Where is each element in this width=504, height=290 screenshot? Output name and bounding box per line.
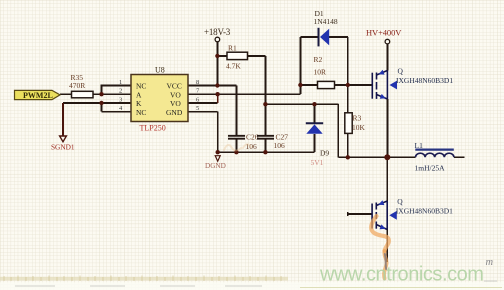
junction C27 DGND bbox=[263, 150, 267, 154]
wire R1 drop to C27 bbox=[264, 56, 266, 135]
wire DGND rail bbox=[218, 151, 315, 153]
wire HV drop to Q1 collector bbox=[386, 44, 388, 71]
svg-text:5: 5 bbox=[196, 105, 199, 112]
svg-text:D9: D9 bbox=[320, 149, 329, 158]
svg-text:VO: VO bbox=[170, 90, 181, 99]
svg-text:1mH/25A: 1mH/25A bbox=[415, 164, 446, 173]
svg-text:Q: Q bbox=[397, 197, 403, 206]
ground DGND bbox=[205, 156, 226, 170]
svg-text:4.7K: 4.7K bbox=[226, 62, 241, 71]
svg-text:PWM2L: PWM2L bbox=[23, 91, 53, 100]
svg-text:470R: 470R bbox=[69, 81, 85, 90]
capacitor C27 bbox=[257, 133, 288, 151]
junction +18V R1 bbox=[215, 54, 219, 58]
wire R2 right to gate bbox=[335, 84, 372, 86]
svg-text:NC: NC bbox=[136, 108, 146, 117]
wire pin 7 net VO bbox=[188, 93, 300, 95]
wire Q1 emitter drop bbox=[386, 99, 388, 157]
svg-text:K: K bbox=[136, 99, 142, 108]
junction D9 node bbox=[312, 102, 316, 106]
inductor L1 bbox=[415, 141, 454, 173]
junction R3 rail bbox=[346, 155, 350, 159]
resistor R3 bbox=[345, 113, 366, 134]
wire pin7 riser to R2 bbox=[299, 85, 301, 94]
svg-text:IXGH48N60B3D1: IXGH48N60B3D1 bbox=[396, 76, 453, 85]
wire D1 left vertical bbox=[299, 37, 301, 85]
junction VO pins bbox=[215, 92, 219, 96]
svg-text:10R: 10R bbox=[314, 68, 327, 77]
wire +18V drop bbox=[216, 42, 218, 86]
wire VCC drop to C26 bbox=[235, 86, 237, 136]
wire pin 2 stub bbox=[102, 93, 132, 95]
wire C26 bottom lead bbox=[235, 139, 237, 153]
junction R2 left D1 bbox=[298, 83, 302, 87]
wire +18V to R1 bbox=[217, 55, 227, 57]
svg-text:VCC: VCC bbox=[167, 82, 182, 91]
svg-text:10K: 10K bbox=[352, 123, 366, 132]
wire R3 top lead bbox=[347, 85, 349, 113]
wire PWM2L to R35 bbox=[60, 93, 72, 95]
svg-text:VO: VO bbox=[170, 99, 181, 108]
junction R2 right D1 R3 bbox=[346, 83, 350, 87]
svg-text:+18V-3: +18V-3 bbox=[204, 27, 231, 37]
wire GND drop bbox=[217, 112, 219, 153]
wire drop to lower rail bbox=[337, 104, 339, 157]
wire pin 5 GND stub bbox=[188, 111, 218, 113]
wire mid rail bbox=[338, 156, 415, 158]
wire D9 top lead bbox=[314, 104, 316, 123]
resistor R35 bbox=[69, 73, 93, 98]
wire pin1-pin2 riser bbox=[101, 85, 103, 95]
wire Q2 gate bbox=[348, 213, 372, 215]
svg-text:R2: R2 bbox=[314, 55, 323, 64]
wire R3 bottom lead bbox=[347, 133, 349, 157]
svg-text:1: 1 bbox=[119, 79, 122, 86]
svg-text:TLP250: TLP250 bbox=[140, 124, 166, 133]
wire R2 left bbox=[300, 84, 317, 86]
junction pin3-pin4 bbox=[99, 101, 103, 105]
wire pin 6 stub bbox=[188, 102, 218, 104]
wire SGND drop bbox=[62, 103, 64, 136]
diode D1 1N4148 bbox=[314, 9, 338, 46]
wire R1 right bbox=[248, 55, 266, 57]
svg-text:DGND: DGND bbox=[205, 162, 226, 170]
resistor R2 bbox=[314, 55, 335, 89]
pin numbers bbox=[119, 79, 200, 112]
junction R1 node bbox=[263, 102, 267, 106]
wire R35 to pin2 junction bbox=[93, 93, 102, 95]
svg-text:m: m bbox=[486, 257, 494, 268]
port PWM2L bbox=[15, 90, 61, 99]
orange scribble annotation bbox=[371, 216, 389, 279]
svg-text:U8: U8 bbox=[155, 66, 165, 75]
wire pin 3 net to SGND bbox=[63, 102, 131, 104]
power +18V-3 bbox=[204, 27, 231, 42]
wire C27 bottom lead bbox=[264, 139, 266, 153]
svg-text:A: A bbox=[136, 90, 142, 99]
wire D1 top right bbox=[329, 36, 348, 38]
svg-text:Q: Q bbox=[398, 67, 404, 76]
svg-text:8: 8 bbox=[196, 79, 199, 86]
wire D1 right vertical bbox=[347, 37, 349, 85]
svg-text:106: 106 bbox=[274, 141, 286, 150]
capacitor C26 bbox=[228, 133, 259, 152]
transistor Q2 IGBT lower bbox=[372, 201, 387, 230]
svg-text:R3: R3 bbox=[353, 114, 362, 123]
node phase mid-rail bbox=[384, 154, 390, 160]
wire Q2 emitter drop bbox=[386, 230, 388, 263]
power HV+400V bbox=[366, 27, 402, 44]
wire D1 top left bbox=[300, 36, 318, 38]
wire pin3-pin4 riser bbox=[101, 103, 103, 112]
svg-text:NC: NC bbox=[136, 82, 146, 91]
wire pin 1 stub bbox=[102, 85, 132, 87]
diode D9 zener bbox=[306, 123, 330, 167]
transistor Q1 IGBT upper bbox=[372, 71, 387, 100]
svg-text:5V1: 5V1 bbox=[311, 158, 324, 167]
svg-text:C26: C26 bbox=[246, 133, 259, 142]
svg-text:1N4148: 1N4148 bbox=[314, 17, 338, 26]
junction C26 DGND bbox=[234, 150, 238, 154]
svg-text:GND: GND bbox=[166, 108, 183, 117]
svg-text:SGND1: SGND1 bbox=[51, 143, 75, 152]
bottom ruler band bbox=[0, 276, 504, 290]
wire pin 8 net VCC bbox=[188, 85, 236, 87]
ground SGND1 bbox=[51, 136, 75, 152]
wire pin6-pin7 riser bbox=[217, 94, 219, 103]
faint scribble watermark near DGND bbox=[224, 144, 251, 150]
junction DGND pin5 bbox=[216, 150, 220, 154]
junction +18V VCC bbox=[215, 83, 219, 87]
svg-text:3: 3 bbox=[119, 97, 122, 104]
junction pin1-pin2 bbox=[99, 92, 103, 96]
wire D9 bottom lead bbox=[314, 134, 316, 152]
svg-text:HV+400V: HV+400V bbox=[366, 27, 402, 37]
optocoupler U8 TLP250 bbox=[119, 66, 200, 133]
svg-text:IXGH48N60B3D1: IXGH48N60B3D1 bbox=[396, 207, 453, 216]
resistor R1 bbox=[226, 44, 248, 71]
svg-text:www.cntronics.com: www.cntronics.com bbox=[319, 263, 484, 285]
wire pin 4 stub bbox=[102, 111, 132, 113]
wire L1 right tail bbox=[454, 156, 465, 158]
wire node rail y104 bbox=[265, 103, 338, 105]
svg-text:L1: L1 bbox=[415, 141, 424, 150]
wire Q2 collector drop bbox=[386, 157, 388, 201]
svg-text:2: 2 bbox=[119, 88, 122, 95]
svg-text:R1: R1 bbox=[228, 44, 237, 53]
